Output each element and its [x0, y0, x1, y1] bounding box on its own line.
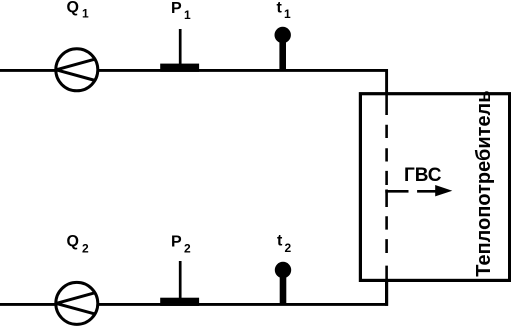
- wire: vertical pipe right side (solid bottom part): [385, 280, 388, 306]
- pressure tap P2: [160, 298, 199, 306]
- svg-text:1: 1: [184, 8, 191, 22]
- svg-text:1: 1: [82, 7, 89, 21]
- svg-text:t: t: [277, 0, 283, 17]
- wire: vertical pipe right side (solid top part): [385, 69, 388, 115]
- svg-text:Теплопотребитель: Теплопотребитель: [473, 90, 495, 276]
- wire: dashed horizontal ГВС branch: [385, 190, 408, 193]
- svg-text:t: t: [277, 233, 283, 250]
- temperature sensor t1: [279, 36, 286, 70]
- svg-text:2: 2: [285, 241, 292, 255]
- wire: bottom return pipe: [0, 303, 388, 306]
- svg-text:1: 1: [284, 7, 291, 21]
- wire: dashed vertical line inside box: [385, 94, 388, 281]
- pressure tap P1: [160, 64, 199, 72]
- svg-text:Q: Q: [67, 233, 79, 250]
- svg-text:2: 2: [184, 241, 191, 255]
- temperature sensor t2: [280, 271, 287, 304]
- svg-text:P: P: [171, 234, 182, 251]
- svg-text:Q: Q: [67, 0, 79, 16]
- arrow: ГВС flow arrow: [417, 190, 438, 193]
- svg-text:2: 2: [82, 242, 89, 256]
- box: Теплопотребитель (heat consumer): [360, 94, 509, 281]
- svg-text:ГВС: ГВС: [404, 165, 442, 186]
- svg-text:P: P: [171, 0, 182, 17]
- flow meter Q2: [56, 282, 98, 324]
- flow meter Q1: [56, 49, 98, 91]
- wire: top supply pipe: [0, 69, 388, 72]
